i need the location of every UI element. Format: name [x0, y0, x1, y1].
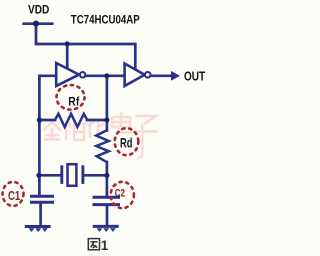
red dashed highlight around C2: [111, 182, 134, 208]
char dian: [112, 112, 133, 133]
wire C1 lower lead: [39, 204, 42, 226]
wire OUT with arrow: [151, 74, 172, 77]
svg-text:C2: C2: [115, 187, 125, 199]
wire U1A output to U1B input: [85, 74, 124, 77]
junction dot on U1A output node: [104, 73, 109, 78]
wire Rf left lead: [39, 119, 55, 122]
wire right rail upper (to Rd): [106, 76, 109, 131]
wire C2 lower lead: [106, 206, 109, 225]
red dashed highlight around Rd: [115, 128, 139, 155]
ground under C1: [25, 227, 51, 233]
junction dot right rail / Rf: [104, 117, 109, 122]
wire crystal right: [84, 174, 107, 177]
junction dot left rail / Rf: [37, 117, 42, 122]
wire U1A input: [39, 74, 57, 77]
svg-text:C1: C1: [8, 188, 20, 203]
crystal X1 left plate: [60, 165, 63, 184]
svg-text:OUT: OUT: [184, 69, 205, 83]
junction dot at VDD tap: [33, 21, 39, 27]
svg-text:Rd: Rd: [120, 134, 133, 150]
svg-text:TC74HCU04AP: TC74HCU04AP: [71, 12, 140, 26]
char bo: [66, 122, 84, 140]
ground under C2: [93, 226, 119, 232]
U1A output bubble: [80, 72, 85, 77]
wire Rf right lead: [87, 119, 107, 122]
char zi: [133, 116, 158, 159]
circuit wires and parts: [24, 24, 136, 226]
wire VDD drop + top rail + drop to U1B: [36, 24, 135, 70]
op-amp U1A inverter triangle: [56, 63, 79, 86]
wire crystal left: [39, 174, 60, 177]
wire VDD tap rail: [24, 22, 53, 25]
junction dot left rail / crystal: [36, 173, 41, 178]
char jin: [43, 122, 61, 141]
red dashed highlight around Rf: [57, 85, 85, 110]
svg-text:1: 1: [101, 238, 109, 253]
char hidden behind Rd: [87, 120, 104, 138]
crystal X1 body: [68, 164, 77, 186]
svg-text:Rf: Rf: [68, 94, 80, 108]
wire left rail: [38, 76, 41, 195]
junction dot right rail / crystal: [104, 173, 109, 178]
resistor Rf (feedback): [55, 114, 87, 127]
U1B output bubble: [145, 72, 151, 78]
wire VDD drop to U1A: [66, 44, 69, 70]
wire right rail lower (Rd to C2): [106, 162, 109, 196]
caption figure 1 (drawn hanzi + digit): [88, 239, 99, 250]
capacitor C2 plates: [93, 196, 121, 199]
svg-text:VDD: VDD: [28, 2, 50, 16]
capacitor C1 plates: [30, 195, 54, 198]
op-amp U1B inverter triangle: [125, 64, 145, 87]
crystal X1 right plate: [81, 165, 84, 184]
junction dot on top rail: [65, 41, 70, 46]
red dashed highlight around C1: [3, 182, 24, 206]
resistor Rd (damping): [96, 130, 109, 162]
